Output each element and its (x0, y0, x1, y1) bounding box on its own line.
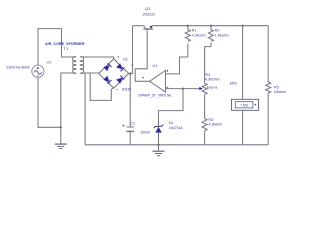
svg-text:4.3kohm: 4.3kohm (192, 34, 206, 38)
svg-text:10kohm: 10kohm (274, 90, 287, 94)
svg-text:100uF: 100uF (140, 131, 151, 135)
svg-text:D2: D2 (169, 121, 174, 125)
svg-text:R3: R3 (209, 118, 214, 122)
svg-text:4.3kOhm: 4.3kOhm (205, 77, 220, 81)
svg-text:120Vrms 60Hz: 120Vrms 60Hz (6, 66, 30, 70)
svg-text:R1: R1 (192, 29, 197, 33)
svg-text:OPAMP_3T_VIRTUAL: OPAMP_3T_VIRTUAL (138, 93, 172, 97)
svg-text:1.5kohm: 1.5kohm (215, 34, 229, 38)
svg-text:65%: 65% (230, 82, 238, 86)
svg-text:T1: T1 (64, 46, 69, 51)
svg-text:V1: V1 (47, 59, 53, 64)
svg-text:R5: R5 (274, 85, 279, 89)
svg-text:3N246: 3N246 (122, 87, 132, 91)
svg-text:C1: C1 (131, 122, 136, 126)
svg-text:R4: R4 (205, 73, 210, 77)
svg-text:D1: D1 (123, 58, 128, 62)
svg-text:4.3kohm: 4.3kohm (209, 123, 223, 127)
svg-text:Q1: Q1 (145, 6, 151, 11)
svg-text:U1: U1 (153, 64, 158, 68)
svg-text:Key=a: Key=a (207, 85, 217, 89)
svg-text:R2: R2 (215, 29, 220, 33)
svg-text:1N4734A: 1N4734A (169, 126, 184, 130)
svg-text:2N2222: 2N2222 (143, 12, 156, 16)
svg-text:7.5M: 7.5M (240, 103, 248, 107)
